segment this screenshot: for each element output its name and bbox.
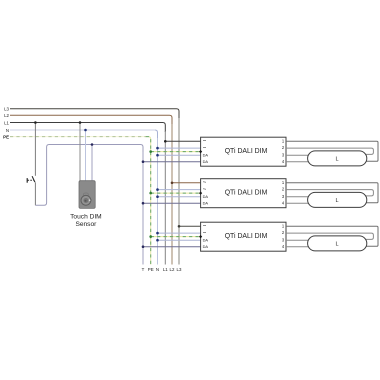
svg-text:DA: DA	[203, 194, 209, 199]
svg-text:QTi DALI DIM: QTi DALI DIM	[225, 190, 268, 197]
svg-text:N: N	[6, 128, 9, 133]
svg-text:PE: PE	[3, 135, 9, 140]
svg-text:L: L	[335, 198, 338, 204]
svg-text:~: ~	[203, 230, 207, 236]
svg-text:Touch DIM: Touch DIM	[70, 214, 102, 221]
svg-text:DA: DA	[203, 201, 209, 206]
svg-text:L: L	[335, 242, 338, 248]
svg-text:T: T	[142, 267, 145, 272]
svg-text:Sensor: Sensor	[75, 221, 97, 228]
svg-text:L1: L1	[4, 120, 9, 125]
svg-text:~: ~	[203, 224, 207, 230]
svg-text:~: ~	[203, 145, 207, 151]
svg-text:N: N	[156, 267, 159, 272]
svg-text:DA: DA	[203, 159, 209, 164]
svg-text:~: ~	[203, 139, 207, 145]
svg-text:DA: DA	[203, 244, 209, 249]
svg-text:L2: L2	[4, 113, 9, 118]
svg-text:DA: DA	[203, 238, 209, 243]
svg-text:~: ~	[203, 187, 207, 193]
svg-text:QTi DALI DIM: QTi DALI DIM	[225, 233, 268, 240]
svg-text:PE: PE	[148, 267, 154, 272]
svg-text:L2: L2	[170, 267, 175, 272]
svg-text:DA: DA	[203, 153, 209, 158]
svg-text:L1: L1	[163, 267, 168, 272]
svg-text:L3: L3	[177, 267, 182, 272]
svg-text:~: ~	[203, 180, 207, 186]
svg-text:L: L	[335, 157, 338, 163]
svg-text:QTi DALI DIM: QTi DALI DIM	[225, 148, 268, 155]
svg-text:L3: L3	[4, 107, 9, 112]
